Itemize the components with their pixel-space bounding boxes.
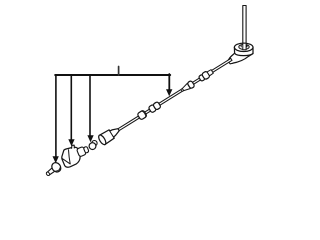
arrowhead 1: [53, 156, 59, 163]
screw end cap: [46, 171, 51, 176]
leader vertical 2: [70, 75, 72, 140]
grommet top ellipse: [234, 43, 253, 51]
ferrule bead B3b: [201, 71, 210, 80]
arrowhead 3: [87, 135, 93, 142]
arrowhead 2: [68, 139, 74, 146]
cable assembly group: [97, 55, 234, 146]
cone ferrule: [180, 83, 190, 92]
antenna mast: [243, 6, 246, 47]
screw head: [50, 161, 63, 174]
sleeve after B3: [207, 69, 213, 75]
screw shank: [47, 168, 55, 176]
screw head bevel: [56, 168, 61, 172]
grommet cylinder bottom arc: [235, 53, 253, 55]
cone flange bead: [187, 80, 195, 89]
grommet inner ellipse: [239, 44, 249, 49]
leader vertical 4 (to cable): [168, 74, 170, 90]
cone tip cap: [181, 89, 184, 92]
connector face ellipse: [97, 134, 107, 146]
connector plug step line: [109, 130, 114, 138]
ferrule bead B2a: [148, 104, 157, 113]
grommet base body: [229, 47, 253, 63]
box front face edge: [69, 150, 71, 164]
box top nub: [72, 145, 75, 148]
screw part: [44, 161, 63, 179]
cable main shaft: [115, 58, 232, 132]
leader bracket horizontal: [55, 74, 170, 76]
box fold line: [62, 158, 70, 164]
mast through base: [243, 43, 246, 50]
mast collar hub: [241, 45, 247, 47]
index tick: [118, 67, 120, 76]
arrowhead 4: [166, 89, 172, 96]
leader vertical 1: [55, 75, 57, 157]
small ring back circle: [92, 141, 97, 146]
leader vertical 3: [89, 75, 91, 136]
sensor box body: [62, 147, 80, 167]
ferrule bead B1: [137, 110, 147, 120]
box side boss: [76, 145, 89, 157]
ferrule bead B2b: [153, 101, 162, 110]
connector plug body: [99, 125, 121, 144]
bead B1 face arc: [142, 110, 147, 116]
ferrule bead B3a: [198, 74, 205, 81]
small ring front circle: [89, 143, 96, 150]
cable exit collar: [228, 57, 233, 64]
